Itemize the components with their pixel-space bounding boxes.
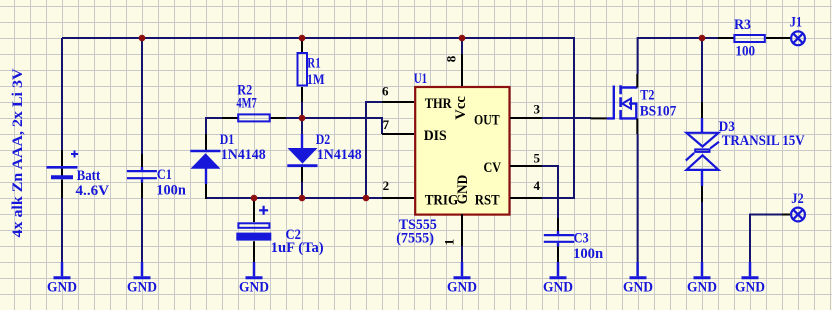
- svg-text:1: 1: [442, 239, 457, 246]
- label TS555: [399, 217, 437, 233]
- svg-text:5: 5: [534, 151, 541, 166]
- svg-text:TRANSIL 15V: TRANSIL 15V: [722, 133, 805, 149]
- label R2: [237, 82, 252, 98]
- junction dot (D3 top): [699, 35, 706, 42]
- pin number 3: [534, 102, 541, 117]
- svg-text:4..6V: 4..6V: [76, 183, 110, 199]
- wire: D3 top vertical: [701, 38, 703, 102]
- svg-text:2: 2: [383, 178, 390, 193]
- label R3: [734, 17, 751, 33]
- label C1: [157, 167, 172, 183]
- diode D2 1N4148: [287, 134, 317, 182]
- pin label CV: [484, 160, 502, 176]
- pin 2 TRIG stub: [382, 197, 414, 199]
- wire: D2 bottom stub: [301, 182, 303, 198]
- ground symbol (D3): [687, 262, 717, 296]
- svg-text:OUT: OUT: [474, 112, 500, 128]
- svg-text:THR: THR: [425, 96, 452, 112]
- svg-text:100: 100: [735, 43, 755, 59]
- wire: battery plus vertical: [61, 38, 63, 150]
- svg-text:GND: GND: [687, 280, 717, 296]
- svg-text:C1: C1: [157, 167, 172, 183]
- svg-text:GND: GND: [735, 280, 765, 296]
- pin label TRIG: [425, 192, 459, 208]
- label 1N4148 (D2): [317, 147, 362, 163]
- svg-text:D2: D2: [316, 132, 331, 148]
- pin number 5: [534, 151, 541, 166]
- pin number 6: [382, 84, 389, 99]
- ground symbol (C2): [239, 262, 269, 296]
- svg-text:6: 6: [382, 84, 389, 99]
- label D2: [316, 132, 331, 148]
- wire: TRIG bus D1 to pin 2: [205, 197, 382, 199]
- pin label Vcc (rotated): [453, 96, 469, 120]
- wire: R2 left to D1: [206, 118, 222, 134]
- svg-text:R1: R1: [307, 56, 320, 72]
- svg-text:GND: GND: [239, 280, 269, 296]
- svg-text:GND: GND: [127, 280, 157, 296]
- junction dot (C2 top): [251, 195, 258, 202]
- svg-text:(7555): (7555): [396, 231, 434, 247]
- wire: THR vertical from bus to pin 6: [366, 102, 382, 198]
- ground symbol (C3): [543, 262, 573, 296]
- wire: C1 top vertical: [141, 38, 143, 154]
- pin 7 DIS stub: [382, 133, 414, 135]
- svg-text:D1: D1: [220, 132, 235, 148]
- junction dot (R1 top): [299, 35, 306, 42]
- junction dot (R1 bottom / D2): [299, 115, 306, 122]
- label 100n (C3): [573, 246, 603, 262]
- wire: right rail T2 drain to R3: [638, 38, 718, 74]
- svg-text:1M: 1M: [307, 72, 325, 88]
- label J1: [790, 15, 802, 31]
- svg-text:3: 3: [534, 102, 541, 117]
- label 4M7: [236, 95, 256, 111]
- pin 3 OUT stub: [510, 117, 542, 119]
- wire: R1 top stub: [301, 38, 303, 54]
- svg-text:GND: GND: [455, 175, 471, 205]
- pin label OUT: [474, 112, 500, 128]
- connector J1: [782, 31, 805, 45]
- pin 1 GND stub: [461, 214, 463, 246]
- diode D1 1N4148: [190, 134, 220, 199]
- label BS107: [640, 104, 677, 120]
- ground symbol (T2 source): [623, 262, 653, 296]
- pin label GND (rotated): [455, 175, 471, 205]
- svg-text:Batt: Batt: [77, 168, 101, 184]
- label 1N4148 (D1): [221, 147, 266, 163]
- svg-text:4M7: 4M7: [236, 95, 256, 111]
- pin label DIS: [424, 128, 447, 144]
- pin number 2: [383, 178, 390, 193]
- svg-text:DIS: DIS: [424, 128, 447, 144]
- svg-text:GND: GND: [447, 280, 477, 296]
- wire: D2 top stub: [301, 118, 303, 134]
- junction dot (Vcc pin8): [459, 35, 466, 42]
- wire: R1 bottom stub: [301, 102, 303, 118]
- capacitor C2 1uF tantalum: [236, 198, 271, 262]
- capacitor C1: [127, 154, 157, 198]
- ground symbol (C1): [127, 262, 157, 296]
- svg-text:C3: C3: [574, 230, 589, 246]
- pin number 7: [383, 117, 390, 132]
- svg-text:1N4148: 1N4148: [221, 147, 266, 163]
- junction dot (D2 bottom): [299, 195, 306, 202]
- pin label THR: [425, 96, 452, 112]
- label D1: [220, 132, 235, 148]
- pin 5 CV stub: [510, 165, 542, 167]
- svg-text:7: 7: [383, 117, 390, 132]
- pin 8 Vcc stub: [461, 54, 463, 86]
- label 100 (R3): [735, 43, 755, 59]
- wire: R2 right to R1 bottom row, to DIS pin 7 jog: [286, 118, 382, 134]
- label Batt: [77, 168, 101, 184]
- wire: OUT to T2 gate: [542, 117, 591, 119]
- ground symbol (U1 pin1): [447, 262, 477, 296]
- wire: pin1 GND stub: [461, 246, 463, 262]
- wire: D3 bottom to GND: [701, 202, 703, 262]
- svg-text:BS107: BS107: [640, 104, 677, 120]
- svg-text:100n: 100n: [156, 183, 186, 199]
- label C3: [574, 230, 589, 246]
- pin 6 THR stub: [382, 101, 414, 103]
- svg-text:8: 8: [443, 55, 458, 62]
- label T2: [640, 88, 654, 104]
- svg-text:1uF (Ta): 1uF (Ta): [271, 240, 324, 256]
- svg-text:GND: GND: [623, 280, 653, 296]
- svg-text:1N4148: 1N4148: [317, 147, 362, 163]
- wire: battery minus to GND: [61, 198, 63, 262]
- svg-text:TRIG: TRIG: [425, 192, 459, 208]
- label (7555): [396, 231, 434, 247]
- ground symbol (J2): [735, 262, 765, 296]
- label 100n (C1): [156, 183, 186, 199]
- label TRANSIL 15V: [722, 133, 805, 149]
- connector J2: [782, 208, 805, 222]
- pin number 4: [534, 178, 541, 193]
- note: battery type rotated text: [10, 68, 26, 238]
- resistor R3: [718, 35, 782, 42]
- svg-text:4: 4: [534, 178, 541, 193]
- svg-text:4x alk Zn AAA, 2x Li 3V: 4x alk Zn AAA, 2x Li 3V: [10, 68, 26, 238]
- svg-text:T2: T2: [640, 88, 654, 104]
- junction dot (THR drop): [363, 195, 370, 202]
- wire: T2 source to GND: [637, 134, 639, 262]
- diode D3 TRANSIL: [686, 102, 719, 202]
- label 1uF (Ta): [271, 240, 324, 256]
- wire: CV to C3: [542, 166, 558, 218]
- label C2: [286, 227, 301, 243]
- svg-text:U1: U1: [414, 71, 428, 87]
- pin label RST: [475, 192, 500, 208]
- IC U1 TS555 body: [415, 87, 509, 215]
- svg-text:GND: GND: [47, 280, 77, 296]
- battery BT1 Batt: [47, 150, 79, 198]
- wire: VCC top rail from battery to RST drop: [62, 38, 574, 198]
- svg-text:GND: GND: [543, 280, 573, 296]
- resistor R2: [222, 114, 286, 121]
- ground symbol (battery): [47, 262, 77, 296]
- wire: C1 bottom to GND: [141, 198, 143, 262]
- wire: Vcc pin 8 stub: [461, 38, 463, 54]
- pin 4 RST stub: [510, 197, 542, 199]
- label 1M: [307, 72, 325, 88]
- svg-text:RST: RST: [475, 192, 500, 208]
- svg-text:Vcc: Vcc: [453, 96, 469, 120]
- capacitor C3: [544, 218, 575, 262]
- pin number 8: [443, 55, 458, 62]
- junction dot (C1 top): [139, 35, 146, 42]
- resistor R1: [298, 40, 308, 102]
- svg-text:CV: CV: [484, 160, 502, 176]
- pin number 1: [442, 239, 457, 246]
- wire: J2 to GND: [750, 215, 782, 263]
- transistor T2 BS107 n-mosfet: [591, 74, 638, 134]
- label 4..6V: [76, 183, 110, 199]
- svg-text:J1: J1: [790, 15, 802, 31]
- svg-text:100n: 100n: [573, 246, 603, 262]
- label R1: [307, 56, 320, 72]
- svg-text:J2: J2: [791, 191, 803, 207]
- label D3: [719, 119, 735, 135]
- label U1: [414, 71, 428, 87]
- label J2: [791, 191, 803, 207]
- svg-text:R3: R3: [734, 17, 751, 33]
